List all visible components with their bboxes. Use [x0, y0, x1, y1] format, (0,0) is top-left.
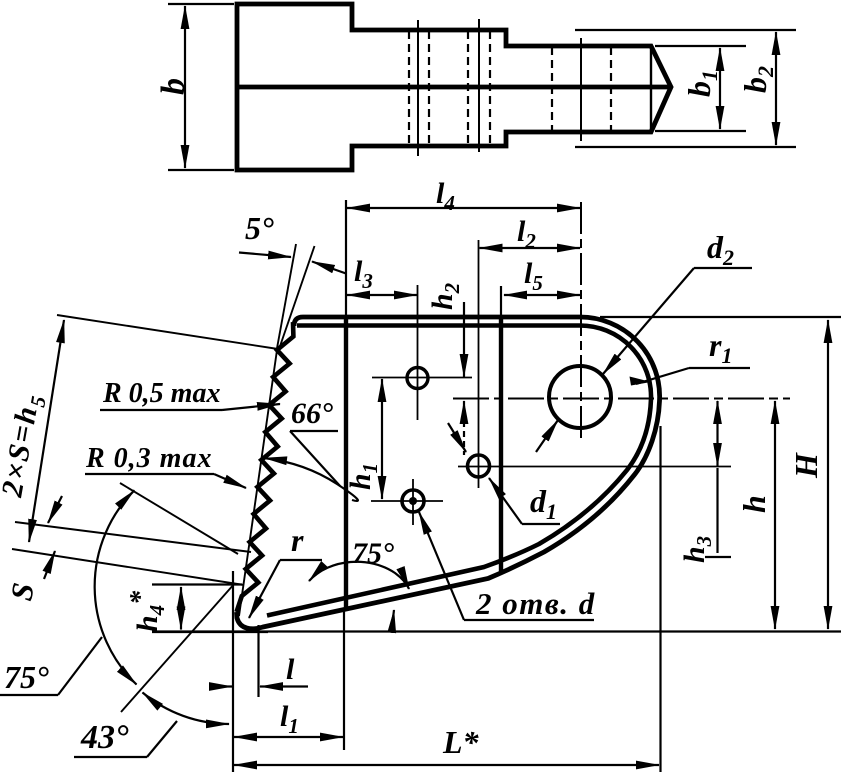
- svg-text:b: b: [155, 78, 192, 95]
- dimension l5: [504, 294, 580, 296]
- d2 horizontal centerline: [453, 398, 790, 400]
- hole d lower centerlines: [371, 500, 443, 502]
- dimension 2xS=h5: [29, 320, 64, 542]
- dimension h3: [716, 401, 718, 466]
- inner contour line (chamfer): [267, 325, 651, 615]
- serrated clamping face: [237, 322, 294, 612]
- extension x=233: [232, 571, 234, 772]
- internal step edge x=346: [344, 318, 348, 607]
- dimension h4* extension lines: [152, 583, 242, 585]
- svg-text:R 0,5 max: R 0,5 max: [102, 378, 220, 409]
- dimension H: [827, 320, 829, 629]
- extension x=258.5: [257, 625, 259, 697]
- dimension b1 extension lines: [655, 45, 746, 47]
- tooth pitch extension line b: [12, 549, 244, 585]
- 75 deg arc: [309, 562, 409, 589]
- svg-text:66°: 66°: [291, 397, 333, 430]
- 5 deg arrow left: [239, 253, 291, 258]
- svg-text:75°: 75°: [352, 537, 394, 570]
- base extension line: [152, 630, 841, 632]
- svg-text:r: r: [291, 522, 304, 558]
- chamfer start edge: [650, 47, 652, 131]
- svg-text:L*: L*: [442, 724, 480, 760]
- extension line x=501 above part: [500, 286, 502, 317]
- dimension b extension lines: [168, 3, 234, 5]
- extension x=660: [659, 426, 661, 772]
- svg-text:2 отв. d: 2 отв. d: [475, 586, 596, 621]
- H top extension line: [600, 316, 841, 318]
- svg-text:R 0,3 max: R 0,3 max: [85, 443, 212, 474]
- 66 deg arc: [264, 458, 358, 501]
- hole d1 hidden lines: [467, 31, 469, 145]
- dimension h4* line: [180, 587, 182, 630]
- svg-text:h: h: [736, 495, 772, 513]
- dimension L*: [234, 764, 659, 766]
- dimension l: [209, 685, 232, 687]
- d2 vertical centerline: [580, 202, 582, 438]
- dimension l3: [347, 294, 417, 296]
- hole d (lower): [402, 490, 424, 512]
- hole d1 centerlines: [458, 466, 731, 468]
- r1 arrowhead: [630, 377, 652, 386]
- jaw outline: [237, 317, 660, 629]
- hole d centerline (top view): [417, 20, 419, 156]
- internal step edge x=501: [499, 318, 503, 573]
- dimension b line: [184, 6, 186, 168]
- big angle arc upper: [95, 490, 137, 684]
- 5 deg arrow right: [312, 262, 346, 274]
- hole d hidden lines: [408, 31, 410, 145]
- dimension l4: [347, 207, 580, 209]
- 43 deg slant line: [121, 583, 235, 712]
- serration envelope line: [239, 350, 277, 616]
- dimension b2 line: [775, 32, 777, 145]
- hole d1: [468, 455, 490, 477]
- dimension h2 line: [463, 302, 465, 377]
- hole d2 hidden lines: [551, 47, 553, 131]
- hole d2 centerline (top view): [580, 38, 582, 141]
- dimension h: [774, 401, 776, 629]
- dimension l2: [480, 247, 581, 249]
- hole d1 centerline (top view): [478, 19, 480, 152]
- hole d centerlines: [372, 377, 472, 379]
- extension x=344: [343, 608, 345, 750]
- tooth pitch extension line a: [15, 522, 251, 552]
- leader arrow into hole d1: [448, 423, 466, 452]
- 5 deg line 2: [278, 246, 315, 352]
- reference line 75deg left: [120, 483, 238, 554]
- svg-text:H: H: [788, 452, 824, 479]
- dimension l1: [234, 736, 343, 738]
- serration extension line (top tooth): [57, 315, 278, 349]
- svg-text:5°: 5°: [245, 210, 274, 246]
- dimension S arrows: [48, 496, 62, 523]
- jaw side-view outline: [237, 4, 671, 170]
- hole d (upper): [407, 368, 428, 389]
- small angle arc at base: [390, 610, 394, 631]
- 5 deg line 1: [277, 244, 297, 351]
- jaw side-view mid edge: [237, 85, 669, 90]
- extension line x=346 above part: [345, 200, 347, 317]
- dimension h1 line: [381, 379, 383, 499]
- svg-text:l: l: [286, 653, 295, 686]
- dimension b2 extension lines: [575, 29, 796, 31]
- big angle arc lower: [143, 693, 230, 725]
- svg-text:43°: 43°: [80, 719, 129, 756]
- svg-text:75°: 75°: [4, 659, 49, 695]
- dimension b1 line: [719, 48, 721, 129]
- hole d2: [549, 366, 611, 428]
